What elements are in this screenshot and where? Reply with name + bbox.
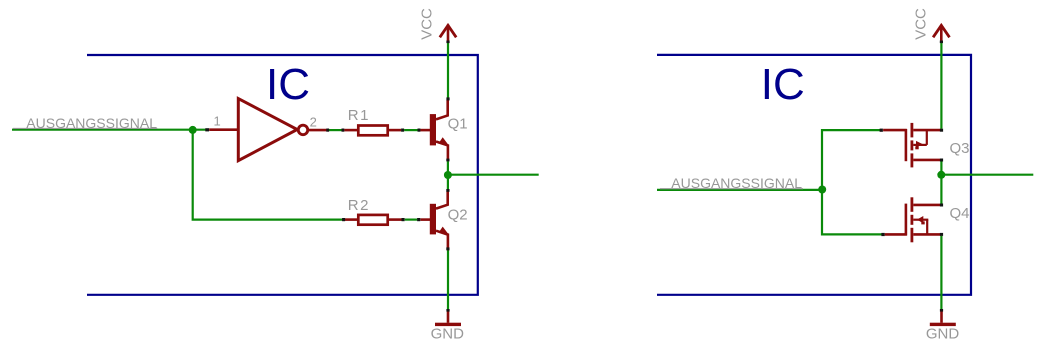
svg-text:IC: IC [761, 60, 805, 109]
svg-text:1: 1 [214, 114, 221, 129]
svg-text:Q2: Q2 [448, 206, 468, 223]
svg-text:Q1: Q1 [448, 115, 468, 132]
svg-text:2: 2 [310, 115, 317, 130]
svg-text:GND: GND [926, 326, 960, 343]
svg-text:GND: GND [431, 326, 465, 343]
svg-text:IC: IC [266, 60, 310, 109]
svg-text:R2: R2 [348, 197, 370, 214]
svg-text:Q3: Q3 [950, 140, 970, 157]
svg-text:R1: R1 [348, 107, 370, 124]
svg-text:VCC: VCC [419, 8, 436, 40]
svg-text:VCC: VCC [912, 8, 929, 40]
svg-text:Q4: Q4 [950, 205, 970, 222]
